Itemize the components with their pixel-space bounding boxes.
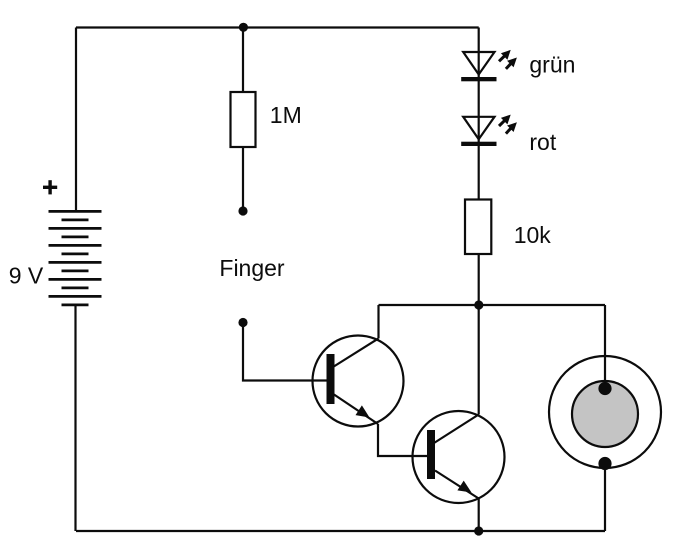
transistor Q2 base bar — [427, 430, 435, 479]
transistor Q2 emitter line — [435, 471, 479, 499]
wire Q1 emitter to Q2 base — [378, 424, 427, 456]
svg-text:grün: grün — [529, 52, 575, 78]
wire collector rail horizontal — [379, 304, 606, 306]
LED D1 green triangle — [463, 52, 494, 75]
svg-text:9 V: 9 V — [9, 263, 44, 289]
node buzzer bottom terminal — [598, 457, 611, 470]
transistor Q1 collector line — [333, 338, 379, 367]
node finger lower contact — [238, 318, 247, 327]
resistor R1 1M body — [231, 92, 256, 147]
transistor Q1 emitter arrowhead — [356, 405, 370, 417]
wire Q2 emitter to bottom rail — [478, 499, 480, 532]
transistor Q1 body — [313, 336, 404, 427]
LED D2 red triangle — [463, 117, 494, 139]
wire bottom rail — [76, 530, 605, 532]
wire LED branch vertical — [478, 28, 480, 200]
node junction 10k / collector rail — [474, 300, 483, 309]
LED D1 emission arrow 1 — [499, 50, 511, 61]
transistor Q1 base bar — [327, 354, 335, 404]
node buzzer top terminal — [598, 382, 611, 395]
LED D2 emission arrow 2 — [506, 122, 517, 133]
node junction bottom rail — [474, 526, 483, 535]
LED D1 cathode bar — [461, 77, 496, 81]
transistor Q2 emitter arrowhead — [457, 481, 471, 493]
battery B1 plates — [49, 211, 102, 305]
transistor Q1 emitter line — [334, 395, 378, 425]
resistor R2 10k body — [465, 200, 491, 255]
piezo buzzer outer circle — [549, 356, 661, 468]
wire buzzer top lead — [604, 305, 606, 389]
piezo buzzer inner disc — [572, 381, 638, 447]
wire resistor R1 branch top — [242, 28, 244, 93]
wire battery - to bottom rail — [74, 305, 76, 531]
wire Q1 collector riser — [377, 305, 379, 338]
wire 10k to Q2 collector — [478, 254, 480, 415]
LED D2 emission arrow 1 — [499, 115, 511, 126]
transistor Q2 collector line — [434, 415, 479, 444]
wire left rail (battery +) — [75, 28, 77, 212]
svg-text:rot: rot — [529, 129, 556, 155]
node junction top rail — [239, 23, 248, 32]
LED D2 cathode bar — [461, 142, 496, 146]
wire top rail — [76, 26, 479, 28]
svg-text:Finger: Finger — [219, 255, 285, 281]
wire resistor R1 to finger contact — [242, 147, 244, 211]
transistor Q2 body — [413, 411, 505, 503]
LED D1 emission arrow 2 — [506, 58, 517, 69]
svg-text:10k: 10k — [514, 222, 552, 248]
battery B1 plus sign — [43, 180, 57, 194]
svg-text:1M: 1M — [270, 102, 302, 128]
wire buzzer bottom lead — [604, 464, 606, 532]
wire finger contact to Q1 base — [243, 323, 327, 381]
node finger upper contact — [238, 206, 247, 215]
